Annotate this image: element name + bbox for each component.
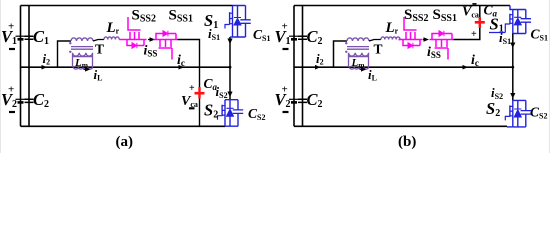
- current ic arrow (b): [463, 65, 469, 70]
- wire SSS1 to node: [178, 40, 200, 68]
- transformer T lower winding (b): [349, 53, 369, 56]
- source V1: [16, 36, 26, 39]
- wire top rail (a): [21, 5, 233, 7]
- inductor Lm parallel branch: [73, 54, 93, 68]
- current iSS arrow (b): [424, 37, 430, 42]
- source V2 (b): [289, 99, 299, 102]
- label minus V1: [9, 48, 15, 50]
- svg-text:+: +: [8, 21, 14, 33]
- transformer T primary connection wire: [58, 41, 72, 67]
- svg-text:+: +: [8, 84, 14, 96]
- transformer T lower winding: [73, 53, 93, 56]
- current is1 arrow: [227, 39, 232, 45]
- capacitor Ca (red): [195, 87, 205, 99]
- current is2 arrow (b): [510, 93, 515, 99]
- wire bottom rail (a): [21, 125, 226, 127]
- wire left capacitor rail (a): [28, 6, 30, 127]
- current is2 arrow: [227, 92, 232, 98]
- current iL arrow: [85, 67, 91, 72]
- label minus Vca: [189, 107, 195, 109]
- capacitor C2 bottom (b): [298, 99, 307, 102]
- inductor Lr: [104, 37, 119, 40]
- current iL arrow (b): [361, 67, 367, 72]
- capacitor C2: [25, 99, 34, 102]
- capacitor C1: [25, 36, 34, 39]
- wire to Lr (b): [369, 40, 381, 42]
- inductor Lm winding (b): [350, 67, 369, 69]
- switch SSS2 (b): [399, 17, 423, 48]
- transformer T core: [71, 47, 93, 50]
- switch SSS2: [123, 17, 147, 48]
- wire middle rail (a): [21, 66, 231, 68]
- capacitor Ca (red) (b): [475, 17, 485, 28]
- current i2 arrow: [42, 65, 48, 70]
- wire Lr to SSS2 (b): [399, 39, 401, 41]
- svg-text:+: +: [282, 21, 288, 33]
- svg-text:T: T: [95, 42, 104, 57]
- capacitor Ca branch wire: [199, 67, 201, 126]
- wire S2 drain down: [229, 67, 231, 100]
- inductor Lm parallel branch (b): [349, 54, 369, 68]
- current ic arrow: [179, 65, 185, 70]
- wire top to S1 (b): [510, 6, 513, 10]
- current iSS arrow: [150, 37, 156, 42]
- transformer T primary connection wire (b): [334, 41, 348, 67]
- source V2: [16, 99, 26, 102]
- inductor Lm winding: [74, 67, 93, 69]
- switch S2 with CS2: [218, 100, 244, 127]
- wire middle rail (b): [294, 66, 513, 68]
- transformer polarity dot upper: [69, 42, 71, 44]
- label minus V2 (b): [283, 111, 289, 113]
- svg-text:+: +: [189, 83, 195, 94]
- transformer T upper winding (b): [347, 38, 369, 41]
- capacitor C2 top (b): [298, 36, 307, 39]
- switch SSS1 (b): [430, 31, 454, 60]
- wire to Lr: [93, 40, 104, 42]
- svg-text:T: T: [374, 42, 383, 57]
- transformer T upper winding: [71, 38, 93, 41]
- svg-text:(b): (b): [398, 134, 416, 150]
- inductor Lr (b): [381, 37, 400, 40]
- svg-text:+: +: [282, 84, 288, 96]
- svg-text:(a): (a): [116, 134, 134, 150]
- label minus V1 (b): [283, 48, 289, 50]
- switch S2 with CS2 (b): [505, 100, 531, 127]
- capacitor Ca stub (b): [479, 6, 481, 18]
- wire bottom rail (b): [294, 125, 507, 127]
- label minus V2: [9, 111, 15, 113]
- svg-text:+: +: [471, 29, 477, 40]
- wire S1 source down: [229, 37, 231, 67]
- wire Lr to SSS2: [119, 39, 122, 41]
- switch SSS1: [154, 31, 178, 60]
- transformer polarity dot lower: [69, 51, 71, 53]
- wire left source rail (b): [293, 6, 295, 127]
- transformer polarity dot lower (b): [345, 51, 347, 53]
- label minus Vca (b): [472, 3, 476, 5]
- switch S1 with CS1 (b): [505, 10, 531, 34]
- source V1 (b): [289, 36, 299, 39]
- current is1 arrow (b): [510, 43, 515, 49]
- wire top rail (b): [294, 5, 510, 7]
- transformer polarity dot upper (b): [345, 42, 347, 44]
- transformer T core (b): [347, 47, 369, 50]
- switch S1 with CS1: [225, 6, 251, 38]
- wire S1 source down to S2 (b): [512, 34, 514, 101]
- wire left capacitor rail (b): [302, 6, 304, 127]
- wire left source rail (a): [20, 6, 22, 127]
- current i2 arrow (b): [315, 65, 321, 70]
- wire SSS1 to top node (b): [454, 28, 480, 40]
